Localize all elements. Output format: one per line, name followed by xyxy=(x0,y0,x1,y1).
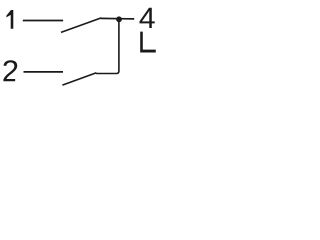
terminal label 1 xyxy=(6,10,13,29)
wire terminal 1 xyxy=(23,20,63,22)
terminal label 2 xyxy=(3,60,17,81)
wire to terminal 4 xyxy=(101,17,135,20)
terminal label L xyxy=(140,32,156,53)
wire vertical with corner to switch 2 xyxy=(96,19,119,73)
circuit schematic: two-circuit switch, terminals 1,2 and common terminal 4/L xyxy=(0,0,188,111)
junction dot xyxy=(116,16,122,22)
terminal label 4 xyxy=(140,8,155,28)
switch blade S2 xyxy=(62,73,96,85)
switch blade S1 xyxy=(61,18,101,33)
wire terminal 2 xyxy=(24,71,64,73)
